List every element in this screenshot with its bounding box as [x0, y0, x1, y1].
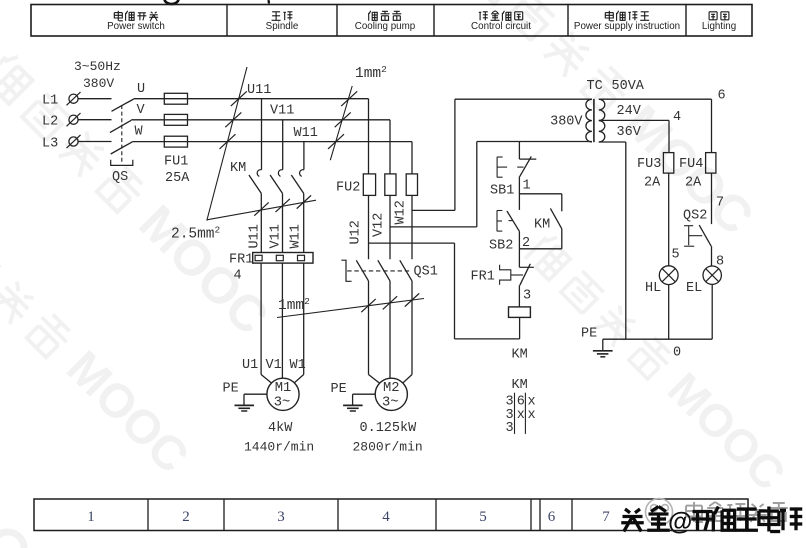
svg-text:2A: 2A	[685, 176, 702, 191]
contactor KM pole2 fixed contact arc	[278, 170, 282, 177]
svg-text:6: 6	[718, 89, 726, 104]
svg-text:4: 4	[673, 110, 681, 125]
wire transformer primary top feed	[455, 98, 592, 100]
switch QS1 pole2 lower wire	[389, 281, 391, 375]
header cell label: Cooling pump	[369, 11, 378, 21]
gauge slash on pump wire 1	[361, 299, 375, 312]
svg-text:HL: HL	[645, 281, 661, 296]
svg-text:2800r/min: 2800r/min	[353, 440, 423, 455]
thermal relay FR1 NC blade	[520, 264, 531, 286]
fuse FU2 pole3	[406, 174, 417, 196]
svg-text:4: 4	[382, 509, 390, 525]
contactor KM pole1 fixed contact arc	[257, 170, 261, 177]
wire-gauge annotation 2.5mm2 leader lines	[207, 67, 247, 221]
svg-text:7: 7	[602, 509, 610, 525]
motor M1 circle	[267, 378, 299, 410]
svg-text:x: x	[528, 408, 536, 423]
gauge slash on V11 wire	[276, 199, 290, 212]
contact table rules	[514, 393, 516, 434]
wire V12 FU2 to QS1	[389, 195, 391, 259]
wire FR1 to motor M1	[303, 263, 305, 374]
wire U12 FU2 to QS1	[368, 195, 370, 259]
decorative watermark tiles	[0, 44, 280, 345]
svg-text:W11: W11	[294, 126, 318, 141]
wire EL to lamp bus	[711, 284, 713, 339]
fuse FU4	[706, 153, 716, 174]
svg-text:W12: W12	[393, 200, 408, 224]
svg-text:0: 0	[673, 346, 681, 361]
svg-text:V11: V11	[269, 224, 284, 248]
svg-text:U11: U11	[247, 83, 271, 98]
svg-text:2: 2	[182, 509, 190, 525]
svg-text:KM: KM	[512, 378, 528, 393]
svg-text:SB1: SB1	[490, 184, 514, 199]
svg-text:2.5mm2: 2.5mm2	[171, 225, 221, 243]
wire L2 to switch QS	[78, 119, 111, 121]
function-zone header table frame	[31, 5, 752, 37]
svg-text:380V: 380V	[83, 76, 114, 91]
wire U11 drop to FU2	[368, 99, 370, 174]
wire secondary mid tap to node 4	[599, 119, 669, 121]
svg-text:PE: PE	[223, 382, 239, 397]
fuse FU1 pole2	[164, 114, 187, 125]
svg-text:FU3: FU3	[637, 157, 661, 172]
switch QS blade pole2	[110, 120, 131, 132]
motor M1 entry bends	[261, 375, 272, 384]
contactor KM pole2 blade	[270, 175, 282, 193]
svg-text:FU2: FU2	[336, 181, 360, 196]
wire SB1 to node1	[518, 178, 520, 210]
wire FU4 to switch QS2	[711, 173, 713, 224]
svg-text:2A: 2A	[644, 176, 661, 191]
control tap U12 to KM coil return	[369, 242, 455, 244]
svg-text:U12: U12	[349, 220, 364, 244]
pushbutton SB2 actuator	[496, 210, 498, 231]
lamp return bus node 0	[603, 338, 712, 340]
svg-text:Power supply instruction: Power supply instruction	[574, 21, 680, 32]
svg-text:FR1: FR1	[471, 270, 495, 285]
pushbutton SB2 blade	[507, 211, 520, 232]
black banner text toutiao at-qiaoshou-xiao-diangong	[621, 509, 644, 532]
wire node6 down to FU4	[711, 99, 713, 152]
wire QS2 to lamp EL	[711, 246, 713, 266]
svg-text:3: 3	[523, 289, 531, 304]
svg-text:L1: L1	[42, 94, 58, 109]
svg-text:QS2: QS2	[683, 209, 707, 224]
contactor KM pole1 blade	[249, 175, 261, 193]
wire FR1 to KM coil	[518, 285, 520, 307]
wire FR1 to motor M1	[281, 263, 283, 374]
contactor KM aux blade	[550, 208, 561, 228]
svg-text:L3: L3	[42, 137, 58, 152]
thermal relay FR1 NC contact tick	[519, 266, 533, 268]
wire KM coil return loop	[519, 317, 521, 339]
gauge slash on U11 at pump tap	[341, 91, 357, 106]
svg-text:M1: M1	[275, 381, 292, 396]
fuse FU2 pole2	[385, 174, 396, 196]
svg-text:EL: EL	[686, 281, 702, 296]
fuse FU1 pole3	[164, 136, 187, 147]
transformer TC core	[593, 99, 595, 142]
svg-text:3: 3	[277, 509, 285, 525]
gauge slash on V11 at pump tap	[335, 112, 351, 127]
svg-text:TC: TC	[587, 79, 603, 94]
svg-text:1440r/min: 1440r/min	[244, 440, 314, 455]
svg-text:1: 1	[523, 179, 531, 194]
wire W12 FU2 to QS1	[411, 195, 413, 259]
svg-text:50VA: 50VA	[612, 79, 645, 94]
wire W phase line	[133, 141, 412, 143]
wire V phase line	[131, 119, 390, 121]
svg-text:M2: M2	[383, 381, 400, 396]
wire secondary top tap to node 6	[599, 98, 712, 100]
wire HL to lamp bus	[668, 285, 670, 340]
gauge slash on pump wire 2	[383, 296, 397, 309]
svg-text:Spindle: Spindle	[266, 21, 299, 32]
svg-text:2: 2	[522, 236, 530, 251]
thermal relay FR1 actuator	[500, 265, 511, 285]
svg-text:5: 5	[479, 509, 487, 525]
svg-text:W11: W11	[289, 224, 304, 248]
switch QS1 pole1 lower wire	[368, 281, 370, 375]
svg-text:FU1: FU1	[164, 155, 188, 170]
switch QS2 blade	[699, 225, 711, 246]
contactor KM pole1 lower wire to FR1	[260, 193, 262, 252]
contactor KM pole3 upper wire	[303, 142, 305, 170]
control tap V12 to transformer bottom	[390, 226, 477, 228]
contactor KM pole3 lower wire to FR1	[303, 193, 305, 252]
svg-text:V11: V11	[270, 104, 294, 119]
svg-text:QS: QS	[112, 170, 128, 185]
svg-text:FU4: FU4	[679, 157, 703, 172]
svg-text:W: W	[135, 125, 144, 140]
svg-text:3~: 3~	[274, 396, 291, 411]
svg-text:6: 6	[548, 509, 556, 525]
svg-text:@: @	[668, 508, 692, 536]
switch QS1 handle bracket	[341, 260, 351, 281]
svg-text:24V: 24V	[617, 104, 642, 119]
svg-text:SB2: SB2	[489, 239, 513, 254]
gray watermark text dianzi-jishu-kong	[686, 502, 703, 522]
svg-text:Power switch: Power switch	[107, 21, 165, 32]
control tap W12 to transformer top	[412, 209, 455, 211]
wire L1 to switch QS	[78, 98, 111, 100]
svg-text:3~50Hz: 3~50Hz	[74, 59, 121, 74]
svg-text:V: V	[137, 103, 146, 118]
svg-text:PE: PE	[331, 382, 347, 397]
svg-text:V12: V12	[372, 213, 387, 237]
gauge slash on U11 wire	[254, 202, 268, 215]
switch QS1 blade pole3	[400, 260, 412, 281]
contactor KM aux contact branch	[519, 193, 561, 195]
svg-text:FR1: FR1	[229, 253, 253, 268]
wire U phase line	[134, 98, 369, 100]
svg-text:4: 4	[234, 269, 242, 284]
header cell label: Spindle	[272, 12, 281, 20]
svg-text:W1: W1	[290, 358, 306, 373]
switch QS1 linkage dashed line	[347, 270, 412, 272]
wire primary bottom to SB1	[518, 142, 520, 160]
switch QS blade pole3	[111, 142, 133, 154]
transformer TC secondary windings	[599, 99, 605, 142]
svg-text:QS1: QS1	[414, 265, 438, 280]
fuse FU2 pole1	[363, 174, 375, 196]
wire FR1 to motor M1	[260, 263, 262, 374]
wire V11 drop to FU2	[389, 120, 391, 174]
switch QS linkage dashed line	[121, 105, 123, 164]
svg-text:5: 5	[672, 248, 680, 263]
svg-text:Cooling pump: Cooling pump	[355, 21, 416, 32]
wire 36V return down to lamp bus	[625, 142, 627, 339]
gray logo watermark	[646, 499, 673, 526]
wire node2 to FR1 contact	[518, 232, 520, 268]
contactor KM pole1 upper wire	[261, 99, 263, 170]
gauge slash on W11 at pump tap	[328, 134, 344, 149]
switch QS2 actuator	[688, 226, 690, 245]
contactor KM pole2 lower wire to FR1	[282, 193, 284, 252]
svg-text:U: U	[137, 82, 145, 97]
bottom section-number strip frame	[34, 499, 748, 531]
wire L3 to switch QS	[78, 141, 111, 143]
svg-text:25A: 25A	[165, 171, 190, 186]
svg-text:1: 1	[87, 509, 95, 525]
pushbutton SB1 blade	[519, 156, 531, 177]
indicator lamp HL	[659, 266, 678, 285]
svg-text:U11: U11	[248, 224, 263, 248]
wire-gauge annotation line for pump feed	[330, 86, 352, 160]
motor M2 circle	[375, 378, 407, 410]
gauge slash on V line	[225, 112, 241, 127]
wire transformer primary bottom feed	[477, 141, 592, 143]
fuse FU3	[663, 153, 673, 174]
gauge slash on U line	[231, 91, 247, 106]
svg-text:3: 3	[506, 421, 514, 436]
svg-text:U1: U1	[242, 358, 258, 373]
contactor KM pole2 upper wire	[282, 120, 284, 170]
svg-text:4kW: 4kW	[268, 421, 293, 436]
gauge slash on W11 wire	[297, 195, 311, 208]
svg-text:KM: KM	[512, 348, 528, 363]
header cell label: Control circuit	[479, 12, 488, 20]
svg-text:KM: KM	[534, 218, 550, 233]
switch QS blade pole1	[112, 99, 134, 111]
header cell label: Power switch	[114, 11, 123, 21]
wire-gauge annotation line at pump motor	[277, 299, 424, 318]
wire FU3 to lamp HL	[668, 173, 670, 266]
wire secondary bottom tap	[599, 141, 626, 143]
gauge slash on pump wire 3	[405, 293, 419, 306]
pushbutton SB1 actuator	[496, 157, 498, 178]
svg-text:7: 7	[716, 196, 724, 211]
switch QS handle bracket	[111, 160, 133, 166]
svg-text:L2: L2	[42, 115, 58, 130]
svg-text:Lighting: Lighting	[702, 21, 736, 32]
fuse FU1 pole1	[164, 93, 187, 104]
header cell label: Power supply instruction	[605, 11, 614, 21]
svg-text:PE: PE	[581, 327, 597, 342]
switch QS1 pole3 lower wire	[411, 281, 413, 375]
svg-text:36V: 36V	[617, 125, 642, 140]
wire W11 drop to FU2	[411, 142, 413, 174]
motor M2 entry bends	[369, 375, 380, 384]
contactor KM pole3 fixed contact arc	[300, 170, 304, 177]
svg-text:380V: 380V	[550, 115, 583, 130]
svg-text:x: x	[517, 408, 525, 423]
lighting lamp EL	[703, 266, 721, 284]
svg-text:Control circuit: Control circuit	[471, 21, 531, 32]
svg-text:0.125kW: 0.125kW	[360, 421, 418, 436]
switch QS1 blade pole2	[378, 260, 390, 281]
header cell label: Lighting	[709, 12, 717, 20]
transformer TC primary winding 380V	[586, 99, 592, 142]
contactor coil KM	[509, 307, 531, 318]
thermal relay FR1 heater box	[253, 253, 313, 264]
cropped title glyph remnants at top edge	[165, 0, 179, 4]
contactor KM pole3 blade	[291, 175, 303, 193]
svg-text:3~: 3~	[382, 396, 399, 411]
svg-text:KM: KM	[230, 161, 246, 176]
wire node4 down to FU3	[668, 120, 670, 152]
switch QS1 blade pole1	[356, 260, 368, 281]
pushbutton SB1 fixed contact tick	[519, 158, 536, 160]
svg-text:V1: V1	[266, 358, 282, 373]
gauge slash on W line	[220, 134, 236, 149]
